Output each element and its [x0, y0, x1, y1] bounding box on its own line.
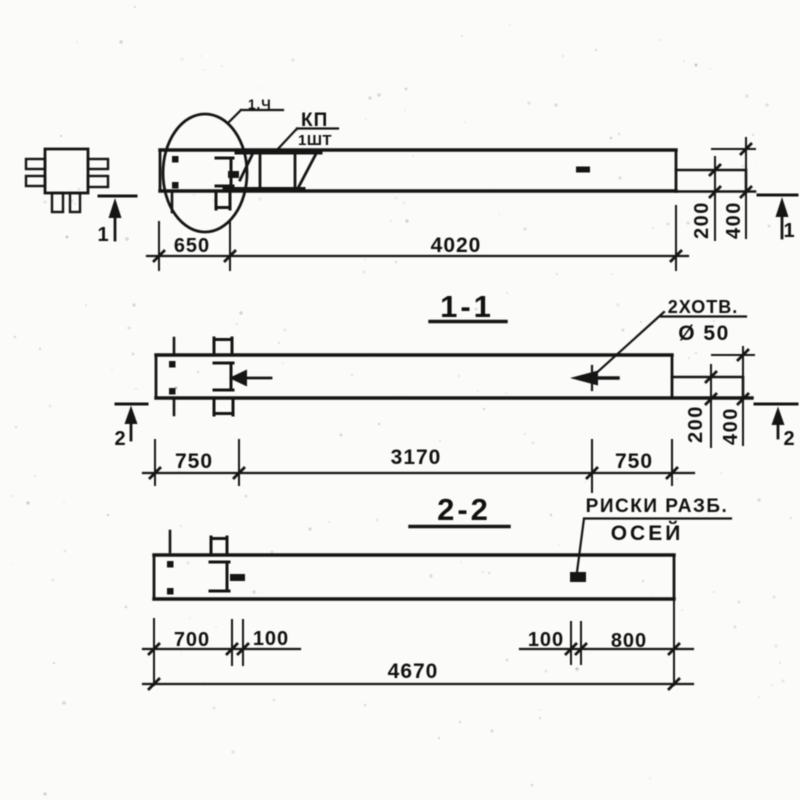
cut trace 1 below beam	[171, 193, 174, 212]
dim line 1-1	[143, 472, 694, 474]
dots 2-2	[167, 561, 174, 595]
svg-text:750: 750	[615, 450, 653, 473]
svg-text:400: 400	[720, 407, 742, 445]
right side vertical dims (top view)	[712, 148, 755, 150]
KP leader	[277, 129, 338, 151]
svg-text:200: 200	[691, 201, 713, 239]
bracket 1-1	[214, 363, 233, 390]
svg-text:2ХОТВ.: 2ХОТВ.	[668, 297, 739, 317]
tab above 1-1	[214, 338, 232, 355]
riska mark 2-2	[570, 572, 586, 582]
beam 2-2	[154, 553, 674, 556]
section marker 1 left	[99, 195, 136, 198]
cut trace 2	[173, 338, 176, 415]
marker 2 left	[116, 403, 147, 406]
column body (plan)	[160, 148, 676, 151]
svg-text:Ø 50: Ø 50	[678, 322, 730, 345]
svg-text:3170: 3170	[391, 446, 442, 469]
svg-text:750: 750	[175, 450, 213, 473]
svg-text:1: 1	[783, 220, 794, 242]
tab below 1-1	[214, 400, 233, 415]
svg-text:400: 400	[723, 201, 745, 239]
svg-text:1: 1	[97, 224, 108, 246]
svg-text:РИСКИ РАЗБ.: РИСКИ РАЗБ.	[586, 496, 729, 517]
svg-text:КП: КП	[301, 110, 328, 131]
svg-text:100: 100	[253, 628, 289, 650]
svg-text:1-1: 1-1	[440, 289, 494, 324]
beam 1-1	[156, 353, 672, 356]
svg-text:700: 700	[174, 629, 210, 651]
svg-text:4670: 4670	[388, 660, 439, 683]
dims 2-2 upper	[143, 648, 693, 650]
leader riski	[577, 519, 731, 573]
bracket 2-2	[210, 562, 229, 591]
dim 4670	[143, 683, 693, 685]
hole mark with arrow 1-1	[570, 371, 598, 386]
svg-text:2-2: 2-2	[437, 492, 491, 527]
axis arrow at bracket	[229, 370, 247, 387]
svg-text:650: 650	[174, 235, 210, 257]
svg-text:4020: 4020	[431, 234, 482, 257]
KP embedded part	[260, 152, 295, 190]
svg-text:1ШТ: 1ШТ	[298, 132, 332, 149]
hole mark on top view	[576, 167, 590, 173]
marker 2 right	[755, 403, 797, 406]
detail label leader	[228, 110, 283, 123]
svg-text:2: 2	[114, 428, 125, 450]
leader to 2xOTV	[592, 312, 746, 377]
dots 1-1	[169, 361, 176, 395]
bottom dim line of top view	[147, 255, 688, 257]
bracket nub	[228, 171, 239, 178]
svg-text:800: 800	[611, 630, 647, 652]
svg-text:100: 100	[528, 629, 564, 651]
weld dots left	[172, 156, 179, 189]
right dims 1-1	[712, 354, 754, 356]
detail ellipse	[163, 114, 247, 232]
svg-text:200: 200	[685, 405, 707, 443]
bracket plate inside ellipse	[216, 158, 233, 186]
svg-text:2: 2	[783, 428, 794, 450]
tenon stub right end	[676, 170, 755, 192]
svg-text:ОСЕЙ: ОСЕЙ	[611, 521, 684, 545]
tab above 2-2	[211, 537, 227, 554]
cut trace above 2-2	[169, 531, 172, 552]
tab below beam	[216, 193, 230, 209]
section marker 1 right	[758, 194, 797, 197]
svg-text:1.Ч: 1.Ч	[248, 97, 272, 112]
